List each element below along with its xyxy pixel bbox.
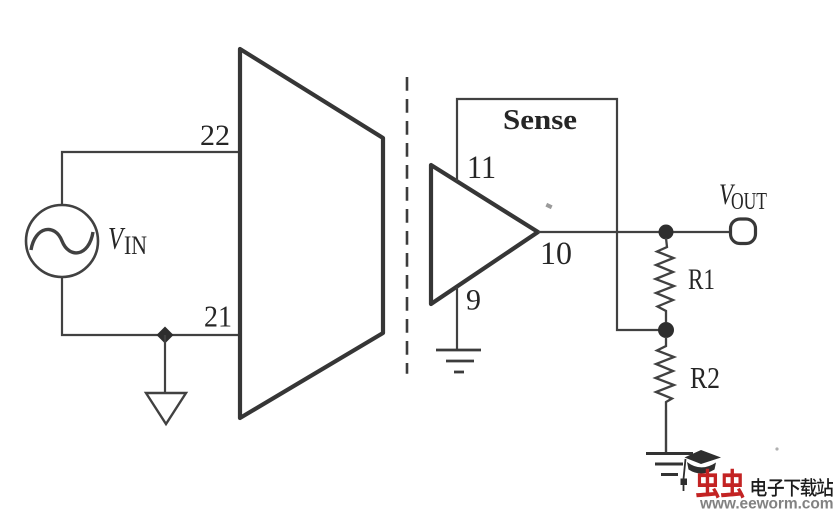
AC source V1 circle [26, 205, 98, 277]
ground (bars) below R2 [646, 452, 693, 455]
svg-text:21: 21 [204, 299, 232, 334]
scan speck [545, 203, 552, 209]
wire R2 to ground [665, 410, 667, 452]
resistor R2 [656, 337, 675, 410]
logo text 电子下载站 [752, 478, 767, 496]
Sense feedback wire [457, 99, 665, 330]
svg-text:22: 22 [200, 119, 230, 152]
VOUT terminal [731, 219, 756, 244]
junction node at output [659, 225, 674, 240]
watermark graduation cap [681, 450, 722, 491]
transformer/isolation block (trapezoid) [240, 49, 383, 418]
resistor R1 [656, 238, 675, 322]
isolation barrier (dashed line) [406, 77, 409, 374]
svg-text:Sense: Sense [503, 104, 577, 136]
logo text 虫虫 [696, 469, 720, 499]
wire pin 9 to ground [456, 287, 458, 349]
svg-text:11: 11 [467, 150, 496, 186]
wire source bottom to pin 21 [62, 277, 240, 335]
svg-text:OUT: OUT [731, 189, 767, 215]
svg-text:10: 10 [540, 236, 572, 272]
scan speck [775, 447, 778, 450]
op-amp U1 (buffer triangle) [431, 165, 538, 304]
wire junction to ground [164, 335, 166, 393]
wire source top to pin 22 [62, 152, 240, 205]
ground (triangle) [146, 393, 186, 424]
svg-text:www.eeworm.com: www.eeworm.com [699, 496, 833, 510]
svg-text:IN: IN [124, 231, 147, 260]
ground (bars) below pin 9 [436, 349, 481, 352]
svg-text:R1: R1 [688, 263, 715, 296]
svg-text:9: 9 [466, 284, 481, 317]
junction dot on bottom wire [157, 327, 174, 344]
AC source sine wave [31, 229, 93, 252]
junction node R1/R2 [658, 322, 674, 338]
svg-text:R2: R2 [690, 360, 720, 395]
output wire pin 10 to VOUT [538, 231, 730, 233]
